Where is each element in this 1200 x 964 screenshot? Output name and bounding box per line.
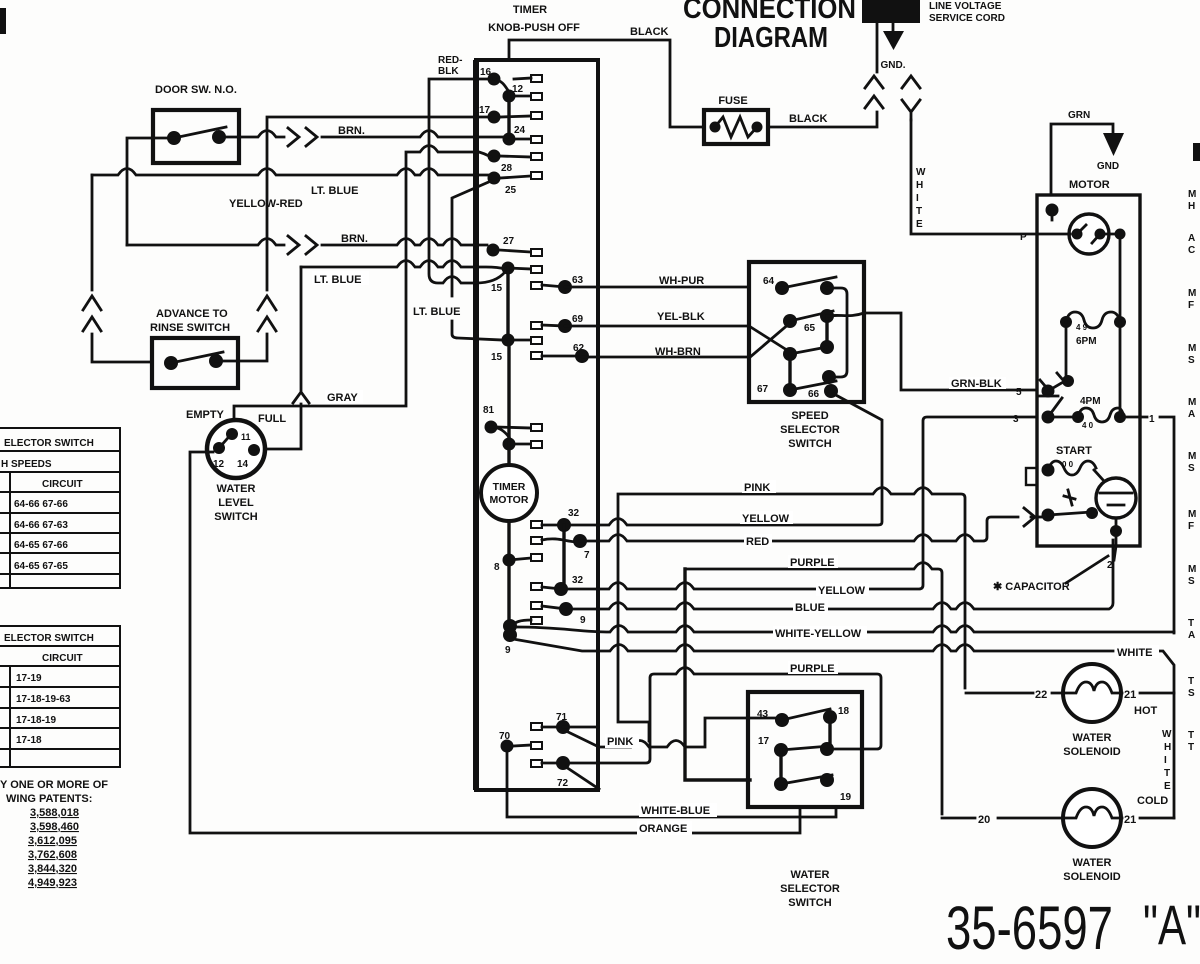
- svg-text:BLK: BLK: [438, 66, 459, 77]
- wire WHITE-YELLOW timer 9b to motor 1: [517, 626, 1174, 633]
- svg-text:28: 28: [501, 163, 513, 174]
- timer terminal 16: [488, 73, 501, 86]
- svg-text:64-66 67-66: 64-66 67-66: [14, 499, 68, 510]
- svg-text:17: 17: [479, 105, 491, 116]
- svg-text:M: M: [1188, 564, 1196, 575]
- main winding circle: [1069, 214, 1109, 254]
- svg-text:6PM: 6PM: [1076, 336, 1097, 347]
- svg-text:0 0: 0 0: [1062, 460, 1074, 469]
- svg-text:I: I: [1164, 755, 1167, 766]
- 6PM winding: [1060, 316, 1072, 328]
- wire rinse right up to timer 17: [216, 117, 489, 361]
- svg-text:64-65 67-66: 64-65 67-66: [14, 540, 68, 551]
- wire door sw left down: [127, 138, 174, 245]
- contact 3 / 4PM winding: [1042, 411, 1055, 424]
- wire door sw right BRN to timer 24: [226, 131, 509, 138]
- wire x509 down to timer motor: [507, 340, 510, 465]
- svg-text:4 0: 4 0: [1082, 421, 1094, 430]
- svg-text:A: A: [1188, 233, 1195, 244]
- svg-text:65: 65: [804, 323, 816, 334]
- svg-text:E: E: [1164, 781, 1171, 792]
- svg-text:3: 3: [1013, 414, 1019, 425]
- svg-text:✱ CAPACITOR: ✱ CAPACITOR: [993, 581, 1070, 593]
- svg-text:WATER: WATER: [791, 869, 830, 881]
- svg-text:12: 12: [512, 84, 524, 95]
- wire WH-BRN timer 62 to speed selector: [582, 356, 749, 359]
- motor M1: [1020, 110, 1140, 546]
- svg-text:15: 15: [491, 283, 503, 294]
- svg-text:64-65 67-65: 64-65 67-65: [14, 561, 68, 572]
- connector chevrons black lead: [865, 76, 883, 88]
- svg-text:18: 18: [838, 706, 850, 717]
- svg-text:FUSE: FUSE: [718, 95, 747, 107]
- svg-text:WING PATENTS:: WING PATENTS:: [6, 793, 92, 805]
- timer terminal 62: [531, 352, 542, 359]
- svg-text:7: 7: [584, 550, 590, 561]
- svg-text:EMPTY: EMPTY: [186, 409, 225, 421]
- svg-text:MOTOR: MOTOR: [490, 494, 529, 506]
- svg-text:3,844,320: 3,844,320: [28, 863, 77, 875]
- svg-text:9: 9: [505, 645, 511, 656]
- timer T1 box: [476, 4, 598, 790]
- svg-text:ORANGE: ORANGE: [639, 823, 687, 835]
- svg-text:64-66 67-63: 64-66 67-63: [14, 520, 68, 531]
- svg-text:BRN.: BRN.: [341, 233, 368, 245]
- svg-text:TIMER: TIMER: [493, 481, 526, 493]
- table 1 wash speeds selector switch: [0, 428, 120, 588]
- timer terminal 17: [488, 111, 501, 124]
- svg-text:S: S: [1188, 688, 1195, 699]
- svg-text:LINE VOLTAGE: LINE VOLTAGE: [929, 1, 1002, 12]
- wire black lead to fuse: [770, 23, 877, 127]
- svg-text:RED-: RED-: [438, 55, 462, 66]
- svg-text:S: S: [1188, 576, 1195, 587]
- timer terminal 8: [503, 554, 516, 567]
- svg-text:1: 1: [1149, 414, 1155, 425]
- wire capacitor 2 down: [1114, 546, 1116, 560]
- wire WHITE-BLUE timer 70 to water selector 19: [507, 752, 836, 817]
- wire YEL-BLK timer 69 to speed selector: [565, 325, 749, 328]
- svg-text:COLD: COLD: [1137, 795, 1168, 807]
- svg-text:W: W: [916, 167, 926, 178]
- grn wire and gnd: [1051, 124, 1113, 195]
- svg-text:WATER: WATER: [1073, 857, 1112, 869]
- svg-text:3,598,460: 3,598,460: [30, 821, 79, 833]
- svg-text:WHITE-YELLOW: WHITE-YELLOW: [775, 628, 862, 640]
- svg-text:PURPLE: PURPLE: [790, 557, 835, 569]
- water solenoid hot L1: [966, 664, 1174, 758]
- svg-text:M: M: [1188, 343, 1196, 354]
- svg-text:24: 24: [514, 125, 526, 136]
- wire LT BLUE timer 25 to left rail: [92, 169, 489, 176]
- svg-text:GRAY: GRAY: [327, 392, 358, 404]
- svg-text:YELLOW: YELLOW: [742, 513, 790, 525]
- svg-text:2: 2: [1107, 560, 1113, 571]
- svg-text:BRN.: BRN.: [338, 125, 365, 137]
- start capacitor: [1096, 478, 1136, 518]
- svg-text:17-18-19: 17-18-19: [16, 715, 56, 726]
- svg-text:SWITCH: SWITCH: [214, 511, 257, 523]
- gray wire water level 11 to timer 28: [234, 146, 491, 421]
- contact 5: [1042, 385, 1055, 398]
- svg-text:SPEED: SPEED: [791, 410, 828, 422]
- water selector switch S5: [748, 692, 862, 909]
- svg-text:17-18: 17-18: [16, 735, 42, 746]
- svg-text:4PM: 4PM: [1080, 396, 1101, 407]
- svg-text:BLACK: BLACK: [630, 26, 669, 38]
- wire PURPLE to solenoid 20: [685, 563, 942, 815]
- svg-text:LEVEL: LEVEL: [218, 497, 254, 509]
- svg-text:35-6597: 35-6597: [946, 894, 1113, 962]
- connector chevrons left rail: [83, 296, 101, 310]
- svg-text:62: 62: [573, 343, 585, 354]
- connector chevrons white lead: [902, 76, 920, 88]
- wire 12-24: [507, 92, 510, 139]
- svg-text:GRN: GRN: [1068, 110, 1090, 121]
- label ORANGE: [637, 821, 692, 835]
- timer terminal 9: [531, 602, 542, 609]
- svg-text:WH-BRN: WH-BRN: [655, 346, 701, 358]
- timer terminal 32: [531, 521, 542, 528]
- timer terminal 25: [488, 172, 501, 185]
- wire speed selector 66 to timer 32 (yellow): [571, 394, 882, 525]
- timer terminal 69: [531, 322, 542, 329]
- svg-text:32: 32: [568, 508, 580, 519]
- svg-text:32: 32: [572, 575, 584, 586]
- svg-text:SOLENOID: SOLENOID: [1063, 746, 1121, 758]
- timer terminal 7: [531, 537, 542, 544]
- svg-text:H: H: [916, 180, 923, 191]
- line voltage service cord block: [862, 0, 920, 23]
- wire speed selector 65 to motor 5 GRN-BLK: [827, 313, 1037, 390]
- left rail down to rinse switch: [92, 175, 152, 362]
- wire YELLOW timer 32b to motor 3: [568, 417, 1037, 589]
- svg-text:M: M: [1188, 509, 1196, 520]
- svg-text:19: 19: [840, 792, 852, 803]
- timer terminal 28: [488, 150, 501, 163]
- svg-text:E: E: [916, 219, 923, 230]
- wire motor 1 down: [1140, 417, 1174, 633]
- wire WHITE timer 9b to solenoid 21: [513, 639, 1174, 818]
- svg-text:H: H: [1164, 742, 1171, 753]
- svg-text:A: A: [1188, 409, 1195, 420]
- svg-text:T: T: [1188, 730, 1194, 741]
- ground lead arrow: [892, 23, 895, 31]
- svg-text:LT. BLUE: LT. BLUE: [311, 185, 358, 197]
- svg-text:S: S: [1188, 355, 1195, 366]
- svg-text:SERVICE CORD: SERVICE CORD: [929, 13, 1005, 24]
- svg-text:ADVANCE TO: ADVANCE TO: [156, 308, 228, 320]
- svg-text:5: 5: [1016, 387, 1022, 398]
- speed selector switch S4: [749, 262, 864, 450]
- svg-text:T: T: [1164, 768, 1170, 779]
- wire BLUE timer 9 to capacitor 2: [573, 540, 1113, 609]
- timer terminal 32b: [531, 583, 542, 590]
- svg-text:H: H: [1188, 201, 1195, 212]
- timer terminal 27: [487, 244, 500, 257]
- svg-text:CIRCUIT: CIRCUIT: [42, 653, 83, 664]
- wire WH-PUR timer 63 to speed selector 64: [565, 286, 749, 289]
- svg-text:T: T: [916, 206, 922, 217]
- svg-text:64: 64: [763, 276, 775, 287]
- svg-text:T: T: [1188, 676, 1194, 687]
- svg-text:25: 25: [505, 185, 517, 196]
- red-blk wire timer 16 down to timer 15: [429, 79, 505, 283]
- svg-text:20: 20: [978, 814, 990, 826]
- svg-text:WHITE-BLUE: WHITE-BLUE: [641, 805, 710, 817]
- svg-text:4 9: 4 9: [1076, 323, 1088, 332]
- svg-text:P: P: [1020, 232, 1027, 243]
- svg-text:FULL: FULL: [258, 413, 286, 425]
- svg-text:3,762,608: 3,762,608: [28, 849, 77, 861]
- wire PURPLE timer 72 to water selector: [569, 668, 881, 764]
- svg-text:21: 21: [1124, 689, 1136, 701]
- contact 4: [1042, 509, 1055, 522]
- timer terminal 24: [503, 133, 516, 146]
- right edge cut labels: [1188, 189, 1196, 753]
- svg-text:12: 12: [213, 459, 225, 470]
- svg-text:17-19: 17-19: [16, 673, 42, 684]
- svg-text:WATER: WATER: [217, 483, 256, 495]
- svg-text:8: 8: [494, 562, 500, 573]
- svg-text:YEL-BLK: YEL-BLK: [657, 311, 705, 323]
- advance to rinse switch S2: [150, 308, 238, 388]
- svg-text:YELLOW: YELLOW: [818, 585, 866, 597]
- svg-text:KNOB-PUSH OFF: KNOB-PUSH OFF: [488, 22, 580, 34]
- svg-text:A: A: [1188, 630, 1195, 641]
- svg-text:RED: RED: [746, 536, 769, 548]
- svg-text:PURPLE: PURPLE: [790, 663, 835, 675]
- svg-text:DOOR SW. N.O.: DOOR SW. N.O.: [155, 84, 237, 96]
- svg-text:81: 81: [483, 405, 495, 416]
- svg-text:SELECTOR: SELECTOR: [780, 424, 840, 436]
- svg-text:11: 11: [241, 432, 251, 442]
- svg-text:SELECTOR: SELECTOR: [780, 883, 840, 895]
- wire 15 to 15b: [506, 268, 509, 340]
- svg-text:LT. BLUE: LT. BLUE: [413, 306, 460, 318]
- svg-text:T: T: [1188, 618, 1194, 629]
- svg-text:CIRCUIT: CIRCUIT: [42, 479, 83, 490]
- svg-text:M: M: [1188, 397, 1196, 408]
- svg-text:SWITCH: SWITCH: [788, 897, 831, 909]
- svg-text:BLUE: BLUE: [795, 602, 825, 614]
- svg-text:WATER: WATER: [1073, 732, 1112, 744]
- svg-text:TIMER: TIMER: [513, 4, 547, 16]
- svg-text:43: 43: [757, 709, 769, 720]
- svg-text:HOT: HOT: [1134, 705, 1158, 717]
- lt blue wire timer 15 to water level 14: [301, 261, 505, 270]
- svg-text:69: 69: [572, 314, 584, 325]
- svg-text:"A": "A": [1143, 893, 1200, 956]
- wire white lead down to motor P: [911, 120, 1037, 234]
- svg-text:27: 27: [503, 236, 515, 247]
- timer terminal 9b cluster: [531, 617, 542, 624]
- lt blue label and wire timer 25 diag to 15b: [452, 181, 502, 340]
- wire fuse left to timer top, label BLACK: [509, 40, 704, 127]
- svg-text:F: F: [1188, 521, 1194, 532]
- svg-text:M: M: [1188, 288, 1196, 299]
- svg-text:22: 22: [1035, 689, 1047, 701]
- svg-text:14: 14: [237, 459, 249, 470]
- svg-text:GRN-BLK: GRN-BLK: [951, 378, 1002, 390]
- svg-text:Y ONE OR MORE OF: Y ONE OR MORE OF: [0, 779, 108, 791]
- orange rail water level 12 to selector: [190, 452, 800, 833]
- svg-text:66: 66: [808, 389, 820, 400]
- svg-text:MOTOR: MOTOR: [1069, 179, 1110, 191]
- svg-text:17-18-19-63: 17-18-19-63: [16, 694, 71, 705]
- svg-text:17: 17: [758, 736, 770, 747]
- wire PINK timer 71 to solenoid 22: [599, 718, 775, 747]
- svg-text:15: 15: [491, 352, 503, 363]
- svg-text:GND.: GND.: [881, 60, 906, 71]
- timer terminal 15: [502, 262, 515, 275]
- wire timer motor down to cluster: [507, 521, 510, 634]
- svg-text:LT. BLUE: LT. BLUE: [314, 274, 361, 286]
- svg-text:21: 21: [1124, 814, 1136, 826]
- wire RED timer 7 to motor 4: [580, 517, 1018, 541]
- svg-text:M: M: [1188, 189, 1196, 200]
- svg-text:ELECTOR SWITCH: ELECTOR SWITCH: [4, 438, 94, 449]
- timer terminal 15b: [502, 334, 515, 347]
- svg-text:ELECTOR SWITCH: ELECTOR SWITCH: [4, 633, 94, 644]
- svg-text:S: S: [1188, 463, 1195, 474]
- svg-text:72: 72: [557, 778, 569, 789]
- svg-text:I: I: [916, 193, 919, 204]
- svg-text:WHITE: WHITE: [1117, 647, 1152, 659]
- svg-text:67: 67: [757, 384, 769, 395]
- svg-text:PINK: PINK: [744, 482, 770, 494]
- svg-text:C: C: [1188, 245, 1195, 256]
- svg-text:RINSE SWITCH: RINSE SWITCH: [150, 322, 230, 334]
- wire 32 to 32b: [562, 525, 565, 589]
- svg-text:M: M: [1188, 451, 1196, 462]
- svg-text:T: T: [1188, 742, 1194, 753]
- title CONNECTION DIAGRAM: [683, 0, 856, 54]
- svg-text:9: 9: [580, 615, 586, 626]
- door switch S1: [153, 84, 239, 163]
- timer motor M2: [481, 465, 537, 521]
- svg-text:SOLENOID: SOLENOID: [1063, 871, 1121, 883]
- timer terminal 12: [503, 90, 516, 103]
- fuse F1: [704, 95, 768, 144]
- timer terminal 9c: [503, 438, 516, 451]
- timer terminal 63: [531, 282, 542, 289]
- svg-text:63: 63: [572, 275, 584, 286]
- svg-text:W: W: [1162, 729, 1172, 740]
- svg-text:3,588,018: 3,588,018: [30, 807, 79, 819]
- svg-text:BLACK: BLACK: [789, 113, 828, 125]
- water solenoid cold L2: [942, 789, 1174, 883]
- svg-text:WH-PUR: WH-PUR: [659, 275, 704, 287]
- svg-text:F: F: [1188, 300, 1194, 311]
- svg-text:DIAGRAM: DIAGRAM: [714, 22, 828, 54]
- svg-text:GND: GND: [1097, 161, 1119, 172]
- wire BRN2 to timer 27: [127, 239, 487, 246]
- table 2 water temp selector switch: [0, 626, 120, 767]
- svg-text:3,612,095: 3,612,095: [28, 835, 77, 847]
- timer terminal 72: [531, 760, 542, 767]
- svg-text:4,949,923: 4,949,923: [28, 877, 77, 889]
- water level switch S3: [186, 409, 286, 523]
- svg-text:START: START: [1056, 445, 1092, 457]
- svg-text:H SPEEDS: H SPEEDS: [1, 459, 52, 470]
- svg-text:SWITCH: SWITCH: [788, 438, 831, 450]
- svg-text:16: 16: [480, 67, 492, 78]
- edge blob top left: [0, 8, 6, 34]
- svg-text:PINK: PINK: [607, 736, 633, 748]
